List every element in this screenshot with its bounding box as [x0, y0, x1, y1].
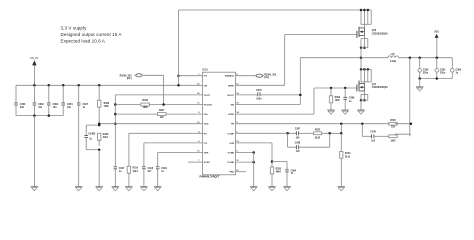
svg-text:UN_IN: UN_IN: [30, 56, 38, 60]
svg-text:180k: 180k: [143, 107, 149, 109]
wire C340-R721: [374, 135, 389, 137]
svg-text:VORB: VORB: [228, 153, 235, 155]
svg-text:1n: 1n: [161, 171, 164, 173]
svg-text:CSD16322Q5A: CSD16322Q5A: [372, 86, 388, 89]
resistor R325: [270, 167, 282, 187]
ground R323: [327, 110, 334, 114]
capacitor C361: [435, 56, 446, 78]
capacitor C300: [14, 85, 26, 115]
svg-text:C318: C318: [148, 168, 154, 170]
resistor R721: [389, 135, 397, 142]
capacitor C366: [451, 58, 462, 79]
svg-text:1u: 1u: [89, 138, 92, 140]
svg-text:BOOT: BOOT: [228, 95, 235, 97]
svg-text:GB: GB: [204, 85, 208, 87]
svg-text:2n2: 2n2: [371, 141, 376, 143]
svg-text:100k: 100k: [104, 106, 110, 108]
svg-text:PWM40L70RQFT: PWM40L70RQFT: [200, 176, 220, 179]
svg-text:C340: C340: [370, 131, 376, 134]
op-amp U1 PWM controller IC10: [197, 68, 239, 178]
ground C364: [283, 187, 290, 191]
wire FB line b: [395, 122, 412, 125]
wire FB line: [236, 122, 389, 125]
svg-text:PAD: PAD: [230, 171, 235, 174]
svg-text:RT: RT: [204, 133, 208, 135]
svg-text:L70: L70: [391, 54, 396, 56]
node 3V3 output arrow: [434, 30, 439, 57]
svg-text:C366: C366: [456, 69, 462, 71]
wire pgnd drop: [253, 153, 255, 187]
svg-text:CSD16322Q5A: CSD16322Q5A: [372, 33, 388, 36]
resistor R348: [98, 84, 110, 125]
svg-text:R323: R323: [335, 97, 341, 99]
svg-text:R316: R316: [133, 168, 139, 170]
svg-text:100n: 100n: [256, 99, 262, 101]
svg-text:R349: R349: [103, 133, 109, 136]
wire pin6 line: [98, 122, 203, 125]
wire VORB to ground: [236, 151, 255, 154]
wire output cap bottom rail: [418, 77, 452, 80]
wire HDRV to high-side gate: [236, 34, 357, 85]
node UN_IN supply arrow: [30, 56, 38, 85]
wire SW pin to switch node: [236, 58, 362, 105]
svg-text:22k1: 22k1: [103, 137, 109, 139]
svg-text:C361: C361: [440, 69, 446, 71]
wire pin8 line: [144, 143, 203, 167]
capacitor C370 bootstrap: [236, 90, 301, 101]
svg-text:C348: C348: [295, 142, 301, 145]
resistor R349: [98, 133, 110, 146]
jumper R3206_302 right: [236, 74, 277, 79]
svg-text:C303: C303: [53, 104, 59, 106]
svg-text:1u: 1u: [83, 107, 86, 109]
svg-text:PGOOD: PGOOD: [204, 105, 213, 107]
ground input rail: [31, 187, 38, 191]
svg-text:Q71: Q71: [372, 84, 377, 86]
wire pin5 line segment a: [115, 113, 157, 115]
wire COMP divider drop: [340, 133, 342, 151]
svg-text:1n: 1n: [291, 173, 294, 175]
svg-text:2.4uH: 2.4uH: [390, 60, 397, 63]
svg-text:C304: C304: [67, 103, 73, 106]
wire pin1 VIN sense: [177, 74, 202, 77]
svg-text:VBP: VBP: [204, 153, 209, 155]
wire switch node: [360, 56, 388, 59]
capacitor C317: [114, 167, 126, 187]
resistor R720: [389, 120, 397, 128]
capacitor C319: [156, 167, 168, 187]
wire C340 branch: [362, 124, 371, 137]
svg-text:10k: 10k: [391, 126, 396, 128]
svg-text:COMP: COMP: [227, 133, 234, 135]
svg-text:10u: 10u: [53, 107, 58, 109]
svg-text:C368: C368: [349, 98, 355, 100]
wire COMP line: [236, 132, 297, 135]
svg-text:10u: 10u: [38, 107, 43, 109]
ground R325: [268, 187, 275, 191]
jumper R3206_302 left: [120, 74, 164, 105]
capacitor C318: [142, 167, 154, 187]
svg-text:C370: C370: [256, 90, 262, 92]
wire top drain rail: [179, 9, 372, 11]
wire PAD stub: [236, 171, 247, 173]
svg-text:R3206_302: R3206_302: [264, 74, 277, 76]
wire divider bottom: [86, 148, 100, 186]
svg-text:SW: SW: [230, 105, 234, 107]
capacitor C304: [61, 84, 73, 116]
wire output gnd stub: [419, 79, 421, 87]
wire output sense drop: [409, 56, 412, 136]
resistor R316: [127, 166, 139, 186]
ground C368: [342, 110, 349, 114]
svg-text:1u: 1u: [119, 171, 122, 173]
wire pin10 stub: [188, 161, 203, 163]
wire input ground drop: [33, 116, 35, 187]
svg-text:C317: C317: [119, 168, 125, 170]
wire ILIM branch: [236, 143, 274, 167]
svg-text:1n0: 1n0: [296, 151, 301, 153]
ground C319: [154, 187, 161, 191]
note: supply description text: [61, 26, 122, 44]
wire comp lower branch b: [299, 133, 330, 147]
wire R721 up: [395, 133, 411, 135]
svg-text:C300: C300: [20, 104, 26, 106]
svg-text:R720: R720: [390, 120, 396, 122]
svg-text:C360: C360: [423, 69, 429, 71]
svg-text:R348: R348: [104, 102, 110, 105]
svg-text:3,3 V supply: 3,3 V supply: [61, 26, 88, 31]
svg-text:[HL]: [HL]: [264, 77, 269, 79]
svg-text:VOUT: VOUT: [204, 95, 211, 97]
capacitor C340: [370, 131, 376, 143]
svg-text:HDRV: HDRV: [228, 85, 235, 87]
svg-text:220u: 220u: [423, 73, 429, 75]
wire pin9 line: [158, 153, 203, 167]
transistor Q71 low-side MOSFET: [357, 58, 388, 110]
svg-text:100k: 100k: [335, 100, 341, 102]
svg-text:R724: R724: [345, 152, 351, 155]
wire input rail VIN: [16, 84, 203, 86]
resistor R318: [141, 100, 150, 109]
wire C347-R322: [299, 132, 314, 134]
svg-text:2k15: 2k15: [345, 157, 351, 159]
wire pin4 to pin6 drop: [114, 113, 117, 125]
svg-text:1n: 1n: [349, 101, 352, 103]
wire comp lower branch a: [288, 133, 297, 147]
svg-text:C3485: C3485: [88, 133, 95, 136]
svg-text:Q70: Q70: [372, 30, 377, 32]
wire input cap bottom rail: [16, 114, 63, 117]
ground IC pgnd: [250, 187, 257, 191]
wire pin4 line segment b: [150, 103, 203, 106]
ground output caps: [416, 87, 423, 91]
ground C317: [112, 187, 119, 191]
svg-text:PG: PG: [204, 76, 207, 78]
svg-text:IC10: IC10: [203, 68, 209, 71]
capacitor C368: [343, 88, 355, 110]
svg-text:SYNC: SYNC: [204, 162, 210, 164]
capacitor C360: [418, 56, 429, 78]
svg-text:R318: R318: [142, 100, 148, 102]
svg-text:CS: CS: [204, 143, 208, 145]
svg-text:C347: C347: [295, 128, 301, 131]
svg-text:ENABLE: ENABLE: [225, 75, 235, 78]
svg-text:R325: R325: [276, 168, 282, 170]
svg-text:Thk: Thk: [204, 114, 209, 116]
resistor R323 gate pulldown: [329, 88, 341, 110]
resistor R317: [157, 110, 166, 119]
svg-text:C307: C307: [83, 104, 89, 106]
svg-text:ILIM: ILIM: [230, 143, 235, 145]
ground divider: [96, 187, 103, 191]
ground R724: [338, 187, 345, 191]
ground C307: [75, 187, 82, 191]
svg-text:R317: R317: [159, 110, 165, 112]
svg-text:3V3: 3V3: [434, 30, 439, 33]
svg-text:PGND: PGND: [228, 162, 235, 164]
ground Q71 source: [357, 110, 364, 114]
ground R316: [125, 187, 132, 191]
resistor R724: [340, 152, 351, 187]
svg-text:VDD: VDD: [204, 124, 209, 126]
capacitor C364: [272, 162, 297, 187]
capacitor C348: [295, 142, 301, 153]
transistor Q70 high-side MOSFET: [357, 9, 388, 58]
capacitor C303: [47, 84, 59, 116]
svg-text:8k25: 8k25: [315, 137, 321, 139]
wire pin3 line: [114, 95, 202, 166]
wire R322 to COMP join: [322, 124, 343, 135]
svg-text:1k04: 1k04: [133, 170, 139, 173]
capacitor C349: [84, 124, 100, 150]
capacitor C307: [77, 84, 89, 187]
inductor L70: [388, 54, 453, 63]
wire VIN riser to high-side drain: [177, 10, 180, 87]
svg-text:4n7: 4n7: [148, 170, 153, 173]
wire PGND to ground: [236, 161, 255, 164]
svg-text:R322: R322: [315, 129, 321, 131]
svg-text:6u8: 6u8: [20, 107, 25, 109]
ground C318: [140, 187, 147, 191]
svg-text:[HL]: [HL]: [127, 78, 132, 80]
svg-text:C302: C302: [38, 104, 44, 106]
svg-text:Designed output current 15 A: Designed output current 15 A: [61, 32, 122, 37]
resistor R322: [314, 129, 322, 139]
capacitor C302: [33, 84, 45, 116]
svg-text:100: 100: [296, 137, 301, 139]
svg-text:LDRV: LDRV: [228, 114, 234, 116]
svg-text:FB: FB: [231, 124, 234, 126]
svg-text:10u: 10u: [67, 107, 72, 109]
svg-text:1k0: 1k0: [160, 117, 165, 119]
svg-text:Expected load 10,6 A: Expected load 10,6 A: [61, 39, 106, 44]
wire pin5 line segment b: [166, 113, 203, 115]
capacitor C347: [295, 128, 301, 140]
svg-text:220u: 220u: [440, 73, 446, 75]
svg-text:1u: 1u: [456, 73, 459, 75]
svg-text:1k02: 1k02: [390, 140, 396, 142]
svg-text:C319: C319: [161, 168, 167, 170]
svg-text:4k64: 4k64: [276, 171, 282, 174]
wire pin4 line segment a: [115, 104, 140, 106]
wire pin7 line: [129, 133, 203, 166]
wire LDRV to low-side gate: [236, 87, 357, 114]
